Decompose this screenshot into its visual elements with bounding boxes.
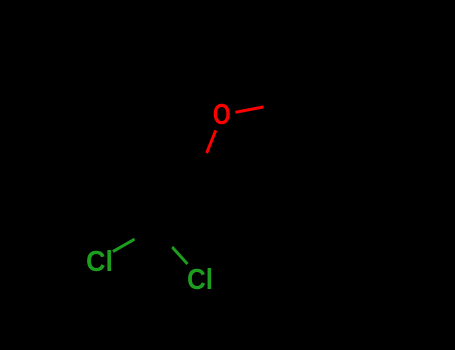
svg-text:Cl: Cl [187,264,213,296]
bond C2-C3 (carbon chain, invisible black) [264,107,300,112]
bond C1-CA (carbon chain, invisible black) [135,153,207,239]
bond O-C2 (red stub, to the right) [235,107,263,112]
bond CB-Cl right (green) [172,247,188,264]
bond CA-CB (carbon chain, invisible black) [135,239,172,247]
bond CA-Cl left (green) [113,239,135,252]
svg-text:Cl: Cl [86,246,113,278]
bond O-C1 (red stub, down-left) [207,130,216,153]
svg-text:O: O [213,99,231,131]
